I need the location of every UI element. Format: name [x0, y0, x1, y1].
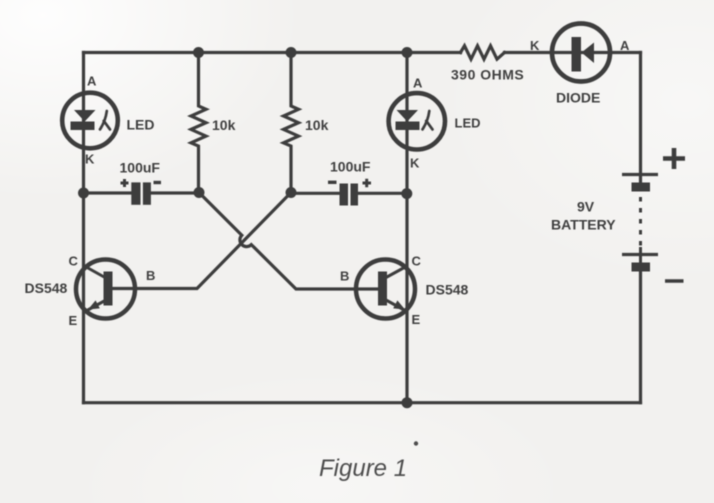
label battery plus	[663, 148, 685, 169]
svg-text:LED: LED	[127, 117, 155, 133]
diode D3	[552, 24, 610, 82]
label C2 polarity -	[328, 181, 337, 184]
node C1 right / R1 bottom	[194, 187, 205, 198]
svg-text:C: C	[412, 254, 422, 269]
wire mid-right rail (LED2/Q2 column)	[405, 53, 408, 403]
svg-text:Figure 1: Figure 1	[319, 455, 407, 482]
svg-text:DS548: DS548	[25, 280, 68, 296]
svg-text:390 OHMS: 390 OHMS	[451, 67, 524, 83]
wire Q1 base to right cap node (cross wire)	[112, 193, 291, 289]
svg-text:B: B	[146, 268, 155, 283]
node bottom rail / Q2 emitter column	[402, 397, 413, 408]
wire left rail	[82, 53, 85, 403]
svg-text:A: A	[87, 74, 97, 89]
battery internal dashed link	[639, 197, 642, 246]
svg-text:DIODE: DIODE	[556, 90, 600, 106]
battery cell 2 short plate	[632, 263, 651, 272]
battery cell 1 short plate	[632, 183, 651, 192]
svg-text:E: E	[412, 312, 421, 327]
resistor R1 10k	[191, 53, 206, 193]
battery cell 1 long plate	[622, 173, 658, 176]
wire right rail lower (battery to bottom)	[639, 272, 642, 403]
svg-text:9V: 9V	[577, 199, 595, 215]
transistor Q2 DS548	[356, 260, 415, 319]
wire Q2 base to left cap node (cross wire with hop)	[199, 193, 379, 290]
label battery minus	[665, 279, 684, 283]
label C1 polarity +	[121, 179, 129, 187]
node top rail / LED2 column	[402, 47, 413, 58]
node C1 left / LED1 cathode	[78, 188, 89, 199]
capacitor C1 100uF	[131, 182, 151, 204]
stray dot artifact	[414, 441, 418, 445]
svg-text:K: K	[410, 156, 420, 171]
wire bottom rail	[84, 401, 641, 404]
svg-text:100uF: 100uF	[330, 159, 371, 175]
svg-text:A: A	[620, 38, 630, 53]
svg-text:BATTERY: BATTERY	[551, 217, 616, 233]
svg-text:A: A	[413, 76, 423, 91]
svg-text:B: B	[340, 269, 349, 284]
svg-text:K: K	[530, 38, 540, 53]
wire top rail right segment	[505, 51, 641, 54]
svg-text:100uF: 100uF	[120, 160, 161, 176]
svg-text:K: K	[85, 152, 95, 167]
svg-text:E: E	[69, 313, 78, 328]
svg-text:10k: 10k	[305, 117, 329, 133]
svg-text:10k: 10k	[212, 117, 236, 133]
wire capacitor C1 left lead	[84, 191, 132, 194]
wire capacitor C2 left lead	[291, 192, 340, 195]
node C2 right / LED2 cathode	[401, 188, 412, 199]
wire top rail left segment	[84, 51, 461, 54]
capacitor C2 100uF	[340, 184, 359, 206]
battery cell 2 top stub	[639, 247, 642, 263]
node top rail / R2	[286, 47, 297, 58]
svg-text:C: C	[69, 254, 79, 269]
LED D1	[62, 93, 118, 149]
resistor R3 390 ohms	[461, 46, 505, 59]
battery cell 2 long plate	[622, 253, 658, 256]
wire capacitor C1 right lead	[152, 191, 200, 194]
transistor Q1 DS548	[76, 260, 135, 319]
resistor R2 10k	[284, 53, 299, 193]
node C2 left / R2 bottom	[286, 187, 297, 198]
LED D2	[389, 93, 445, 149]
label C2 polarity +	[363, 179, 372, 187]
battery BT1 9V	[622, 175, 658, 272]
wire right rail upper (diode to battery)	[639, 53, 642, 185]
label C1 polarity -	[154, 181, 162, 184]
node top rail / R1	[193, 47, 204, 58]
svg-text:LED: LED	[455, 116, 481, 131]
wire capacitor C2 right lead	[358, 192, 407, 195]
svg-text:DS548: DS548	[426, 282, 469, 298]
